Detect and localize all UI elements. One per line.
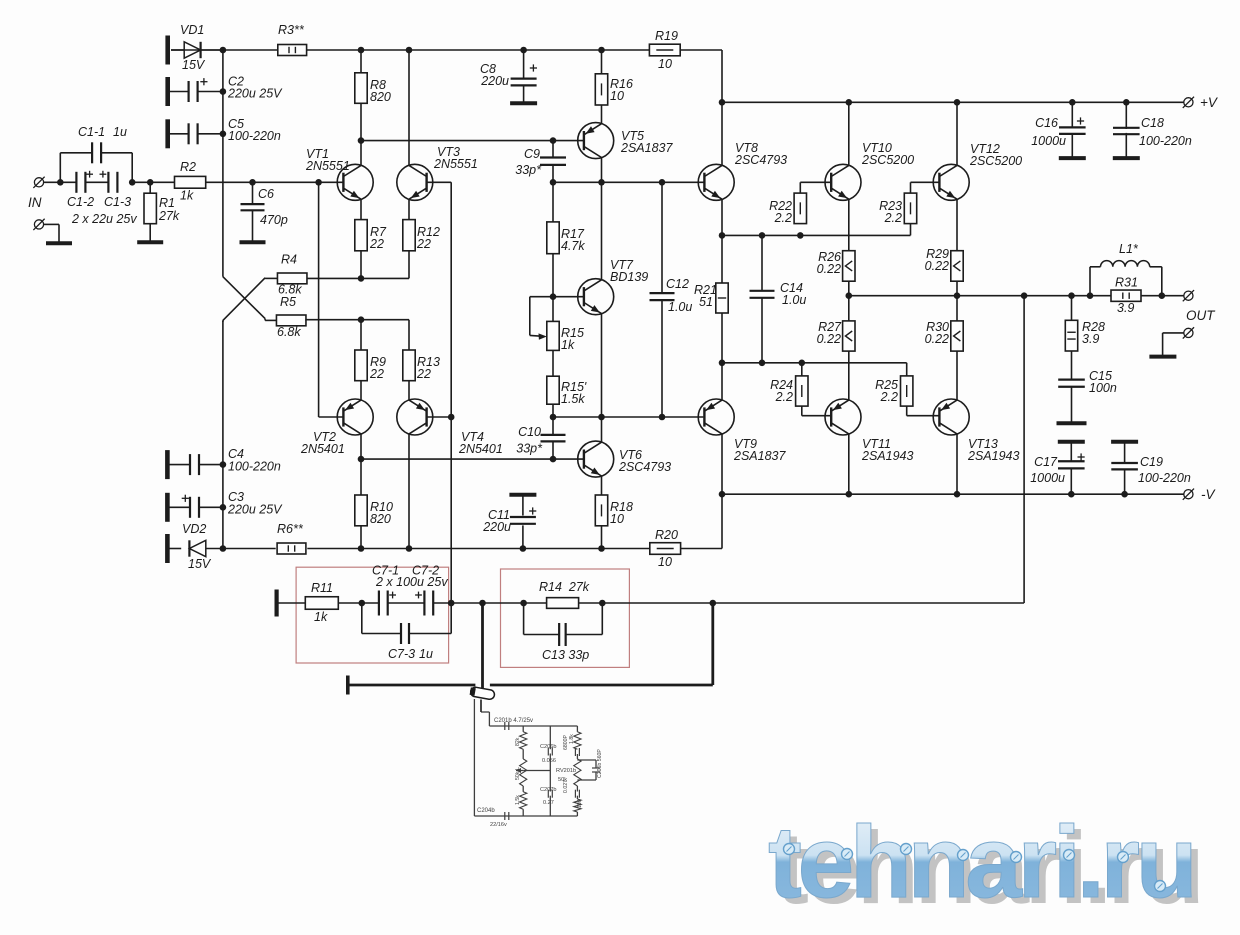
terminal stub for C4 [165,450,170,479]
watermark tehnari.ru [768,805,1200,925]
screen wire left (bold) [348,684,476,687]
svg-text:IN: IN [28,195,42,210]
wire R31 to OUT terminal [1141,295,1184,297]
wire R15 to R15p [552,350,554,376]
capacitor C8 220u [480,50,537,103]
wire VT8 emitter down [721,199,723,283]
svg-text:C13 33p: C13 33p [542,648,589,662]
svg-text:6800P: 6800P [563,734,569,750]
svg-text:1u: 1u [419,647,433,661]
capacitor C10 33p [516,417,565,459]
node VT7 base junction [550,293,557,300]
svg-text:2SC5200: 2SC5200 [969,154,1022,168]
resistor R23 2.2 [879,193,917,225]
svg-text:R19: R19 [655,29,678,43]
terminal +V [1183,95,1219,110]
node VT13 collector junction [954,491,961,498]
resistor R11 1k [277,581,339,624]
svg-text:33p*: 33p* [516,442,543,456]
wire node B to cable node [451,602,546,604]
node L1 right leg [1159,292,1166,299]
svg-text:3.9: 3.9 [1082,332,1099,346]
inset tone-control module (blurred) [474,699,603,828]
svg-text:1.0u: 1.0u [668,300,692,314]
resistor R25 2.2 [875,376,913,406]
svg-text:0.056: 0.056 [542,758,556,764]
wire bottom bias rail (VD2 to R6) [223,548,276,550]
diode VD2 15V [167,522,223,571]
inductor L1* [1090,242,1162,296]
terminal stub for C5 [165,119,170,148]
wire R24 to VT11 base [802,363,831,416]
terminal IN ground [33,219,59,244]
node C18 top junction [1123,99,1130,106]
node L1 left leg [1087,292,1094,299]
svg-text:1k: 1k [180,189,194,203]
wire VT3 base to feedback column [427,181,452,183]
ground below R1 [137,240,163,244]
resistor R30 0.22 [925,320,964,351]
svg-text:2SA1837: 2SA1837 [733,449,786,463]
node VT9 emitter junction [719,360,726,367]
svg-text:22: 22 [369,367,384,381]
trimmer wiper loop of R15 [530,297,553,340]
svg-text:C204b: C204b [477,808,495,814]
resistor R10 820 [355,495,393,526]
svg-text:C205b 560P: C205b 560P [597,749,603,778]
capacitor C12 1.0u [650,182,693,417]
terminal OUT ground [1163,327,1194,355]
wire C1-2 to C1-3 [85,181,108,183]
capacitor C19 100-220n [1111,442,1191,495]
transistor VT2 2N5401 [300,399,373,456]
wire cross top-column to R5 [223,277,277,321]
resistor R22 2.2 [769,193,806,225]
wire R21 to lower bias row [721,313,723,363]
wire R26 to out rail [848,281,850,296]
resistor R9 22 [355,350,386,381]
node VT12 collector junction [954,99,961,106]
capacitor C5 100-220n [168,117,281,144]
wire VT1 emitter to R7 [360,199,362,219]
wire R17 to VT7 base node [552,254,554,322]
cable core into module [480,700,482,713]
svg-text:C10: C10 [518,425,541,439]
wire VT10 emitter to R26 [848,199,850,251]
svg-text:22: 22 [416,237,431,251]
transistor VT9 2SA1837 [698,399,786,463]
node R10 bottom junction [358,545,365,552]
capacitor C17 1000u [1030,442,1084,495]
svg-text:2N5551: 2N5551 [305,159,350,173]
wire R2 to VT1 base [206,181,344,183]
node VT4 base junction [448,414,455,421]
svg-text:22: 22 [416,367,431,381]
transistor VT6 2SC4793 [578,441,671,477]
wire VT6 emitter to R18 [601,476,603,495]
wire lower bias row [722,362,907,364]
wire C7-1 to C7-2 [388,602,425,604]
svg-text:R2: R2 [180,160,196,174]
svg-text:2N5551: 2N5551 [433,157,478,171]
wire R9 drop [360,320,362,350]
wire R13 to VT4 emitter [408,381,410,400]
resistor R31 3.9 [1111,276,1141,316]
node R9 tail junction [358,316,365,323]
wire R19 to +V corner [680,50,722,102]
wire output rail [849,295,1111,297]
node C3 junction [220,504,227,511]
svg-text:1k: 1k [314,610,328,624]
wire VT6 collector up [601,417,603,442]
resistor R3** 6.8k-jumper [278,23,307,56]
capacitor C18 100-220n [1113,102,1192,158]
resistor R15 1k (trimmer) [547,321,584,352]
resistor R7 22 [355,220,387,251]
red frame around C7 group [296,567,449,663]
transistor VT12 2SC5200 [933,142,1022,200]
diode VD1 15V [171,23,223,72]
capacitor C14 1.0u [750,235,807,362]
resistor R14 27k [539,580,590,608]
svg-text:C7-3: C7-3 [388,647,415,661]
svg-text:2SA1837: 2SA1837 [620,141,673,155]
node VT7 emitter junction [598,414,605,421]
svg-text:100-220n: 100-220n [228,460,281,474]
wire R9 to VT2 emitter [360,381,362,400]
svg-text:1k: 1k [561,338,575,352]
wire VT12 emitter to R29 [956,199,958,251]
resistor R1 27k [144,182,180,242]
wire R22 top to VT10 base [800,182,831,193]
node VT5 collector junction [598,179,605,186]
svg-text:C1-1: C1-1 [78,125,105,139]
wire R16 top to rail [601,50,603,74]
svg-text:-V: -V [1201,487,1216,502]
svg-text:0.27: 0.27 [543,800,554,806]
resistor R28 3.9 [1065,320,1105,351]
node C8 top junction [520,47,527,54]
svg-text:0.22: 0.22 [817,332,841,346]
transistor VT11 2SA1943 [825,399,913,463]
svg-text:220u 25V: 220u 25V [227,503,283,517]
terminal stub for C2 [165,77,170,106]
svg-text:R11: R11 [311,581,333,595]
transistor VT4 2N5401 (mirrored) [397,399,503,456]
wire VT10 collector up [848,102,850,165]
wire R23 bottom to bias row [910,224,912,236]
wire R18 to bottom rail [601,526,603,549]
ground below C15 [1057,421,1087,425]
ground above C19 [1111,440,1138,444]
wire upper bias row [722,234,911,236]
cable core drop (bold) [481,603,484,689]
svg-text:10: 10 [610,89,624,103]
capacitor C1-3 22u [71,171,137,226]
svg-text:27k: 27k [158,209,180,223]
resistor R6** jumper [277,522,306,554]
node VT8 emitter junction [719,232,726,239]
wire VT4 collector to bottom rail [408,434,410,549]
transistor VT13 2SA1943 [933,399,1019,463]
svg-text:3.9: 3.9 [1117,301,1134,315]
svg-text:6.8k: 6.8k [277,325,301,339]
svg-text:33p*: 33p* [515,163,542,177]
svg-text:VD2: VD2 [182,522,206,536]
wire R20 to -V rail [681,494,722,548]
capacitor C7-2 100u [412,564,439,616]
wire cross bottom-column to R4 [223,278,278,322]
capacitor C6 470p [241,182,288,242]
node C14 bottom junction [759,360,766,367]
ground at IN terminal [46,241,72,245]
node C6 top junction [249,179,256,186]
svg-text:220u 25V: 220u 25V [227,87,283,101]
node feedback takeoff [1021,292,1028,299]
wire R23 top to VT12 base [911,182,940,193]
node screened-cable tap [479,600,486,607]
wire rail to R28 [1071,296,1073,321]
node C14 top junction [759,232,766,239]
wire VT5 base line [361,140,584,142]
resistor R12 22 [403,220,440,251]
wire VAS output row to VT8 base [553,182,704,222]
node R7 tail junction [358,275,365,282]
transistor VT5 2SA1837 [578,123,674,159]
wire R27 to VT11 emitter [848,351,850,400]
ground below C16 [1059,156,1086,160]
node C5 junction [220,131,227,138]
wire IN to C1-2 [44,181,76,183]
resistor R19 10 [649,29,680,71]
svg-text:15V: 15V [182,58,206,72]
ground above C17 [1058,440,1085,444]
wire VT8 collector up [721,102,723,165]
svg-text:2SC4793: 2SC4793 [734,153,787,167]
resistor R24 2.2 [770,376,808,406]
wire R16 to VT5 emitter [601,105,603,124]
svg-text:220u: 220u [482,520,511,534]
terminal stub for C3 [165,493,170,522]
svg-text:820: 820 [370,512,391,526]
wire R14 to feedback column right [579,602,1025,604]
svg-text:470p: 470p [260,213,288,227]
svg-text:1.5k: 1.5k [515,795,521,805]
wire VT2 collector down [360,434,362,495]
svg-text:10: 10 [610,512,624,526]
svg-text:0.22: 0.22 [925,332,949,346]
wire R30 top to out rail [956,296,958,321]
node C11 bottom junction [520,545,527,552]
node VT10 collector junction [846,99,853,106]
svg-text:100-220n: 100-220n [1139,134,1192,148]
wire R27 top to out rail [848,296,850,321]
capacitor C7-1 100u [372,564,448,616]
wire C1-3 to R2 [132,181,174,183]
svg-text:100: 100 [577,799,583,808]
svg-text:C18: C18 [1141,116,1164,130]
svg-text:L1*: L1* [1119,242,1139,256]
node C12 top junction [659,179,666,186]
node feedback summing B [448,600,455,607]
wire VT3 emitter to R12 [408,199,410,219]
svg-text:1000u: 1000u [1030,471,1065,485]
node C4 junction [220,461,227,468]
svg-text:10: 10 [658,57,672,71]
svg-text:RV201b: RV201b [556,768,576,774]
terminal stub for cable screen [346,676,350,695]
ground below C18 [1113,156,1140,160]
node C17 bottom junction [1068,491,1075,498]
terminal stub for VD1 [165,36,170,65]
terminal stub for VD2 [165,534,170,563]
wire R28 to C15 [1071,351,1073,380]
wire VT7 emitter down [601,314,603,417]
transistor VT8 2SC4793 [698,141,787,200]
capacitor C13 33p (parallel) [524,603,603,662]
resistor R26 0.22 [817,250,855,281]
node C1-3 right junction [129,179,136,186]
wire R8 top to rail [360,50,362,73]
node R18 bottom junction [598,545,605,552]
wire VT11 collector down [848,434,850,494]
svg-text:VD1: VD1 [180,23,204,37]
wire R12 to tail [408,251,410,279]
resistor R29 0.22 [925,247,964,281]
node VT6 base takeoff [358,456,365,463]
wire VT5 collector to row [601,158,603,183]
wire R30 to VT13 emitter [956,351,958,400]
wire R8 to VT1 collector [360,103,362,165]
svg-text:15V: 15V [188,557,212,571]
node R20 return junction [719,491,726,498]
svg-text:2.2: 2.2 [884,211,902,225]
svg-text:1.0u: 1.0u [782,293,806,307]
svg-text:R6**: R6** [277,522,304,536]
node C19 bottom junction [1121,491,1128,498]
wire top bias rail (VD1 to R3) [171,49,278,51]
resistor R5 6.8k [276,295,306,339]
svg-text:R1: R1 [159,196,175,210]
wire R29 to out rail [956,281,958,296]
wire R10 to bottom rail [360,526,362,549]
node R8 top junction [358,47,365,54]
wire bottom bias rail (R6 to R20) [307,548,649,550]
node R22 bottom junction [797,232,804,239]
svg-text:OUT: OUT [1186,308,1216,323]
svg-text:2SC4793: 2SC4793 [618,460,671,474]
resistor R8 820 [355,73,391,104]
node R15p bottom junction [550,414,557,421]
svg-text:+V: +V [1200,95,1219,110]
resistor R18 10 [595,495,633,526]
screen drop from R14 node (bold) [711,603,714,685]
terminal IN [28,177,45,210]
svg-text:100-220n: 100-220n [228,129,281,143]
node C2 junction [220,88,227,95]
svg-text:100n: 100n [1089,381,1117,395]
capacitor C4 100-220n [167,447,280,475]
wire VT13 collector down [956,434,958,494]
node C12 bottom junction [659,414,666,421]
wire R13 drop [408,320,410,350]
wire feedback up to output rail [1023,296,1025,603]
resistor R16 10 [595,74,633,105]
resistor R17 4.7k [547,222,586,254]
svg-text:C206b: C206b [540,744,556,750]
svg-text:1.5k: 1.5k [561,392,585,406]
terminal stub for R11 [275,590,279,617]
svg-text:22/16v: 22/16v [490,822,507,828]
ground above C11 [509,493,536,497]
svg-text:C7-2: C7-2 [412,564,439,578]
svg-text:2.2: 2.2 [775,390,793,404]
wire upper tail [307,277,409,279]
svg-text:2SA1943: 2SA1943 [861,449,913,463]
svg-text:R14 27k: R14 27k [539,580,590,594]
resistor R27 0.22 [817,320,855,351]
screen wire right (bold) [490,684,713,687]
svg-text:0.027: 0.027 [563,780,569,793]
node output rail VT12 branch [954,292,961,299]
svg-text:2.2: 2.2 [880,390,898,404]
capacitor C15 100n [1058,369,1117,423]
capacitor C3 220u 25V [167,490,283,518]
wire bottom bias column [222,320,224,548]
svg-text:C17: C17 [1034,455,1058,469]
resistor R15' 1.5k [547,376,587,406]
svg-text:2.2: 2.2 [774,211,792,225]
svg-text:100-220n: 100-220n [1138,471,1191,485]
svg-text:C1-3: C1-3 [104,195,131,209]
wire input column to VT2 base [319,182,344,417]
wire R11 to C7-1 [338,602,379,604]
capacitor C2 220u 25V [168,75,283,103]
svg-text:R4: R4 [281,253,297,267]
wire VT7 base [553,296,584,298]
wire VT4 base to feedback column [427,416,452,418]
transistor VT1 2N5551 [305,147,373,200]
capacitor C7-3 1u (parallel) [362,603,451,661]
transistor VT10 2SC5200 [825,141,914,200]
ground below C8 [510,101,537,105]
node VT11 collector junction [846,491,853,498]
resistor R4 6.8k [277,253,307,297]
svg-text:51: 51 [699,295,713,309]
node input bypass left [57,179,64,186]
svg-text:10: 10 [658,555,672,569]
resistor R2 1k [175,160,206,203]
resistor R20 10 [650,528,681,569]
svg-text:1.8k: 1.8k [569,734,575,744]
capacitor C16 1000u [1031,102,1085,158]
wire top bias rail (R3 to R19) [307,49,650,51]
node VT4 collector rail junction [406,545,413,552]
svg-text:4.7k: 4.7k [561,239,585,253]
cable sleeve symbol [469,686,495,700]
wire lower tail [306,319,409,322]
svg-text:C9: C9 [524,147,540,161]
node R24 top junction [799,360,806,367]
node output rail left [846,292,853,299]
svg-text:R3**: R3** [278,23,305,37]
node R28 branch [1068,292,1075,299]
node screen right tap [710,600,717,607]
svg-text:0.22: 0.22 [817,262,841,276]
node VT8 collector junction [719,99,726,106]
capacitor C11 220u [482,495,536,549]
wire VT12 collector up [956,102,958,165]
